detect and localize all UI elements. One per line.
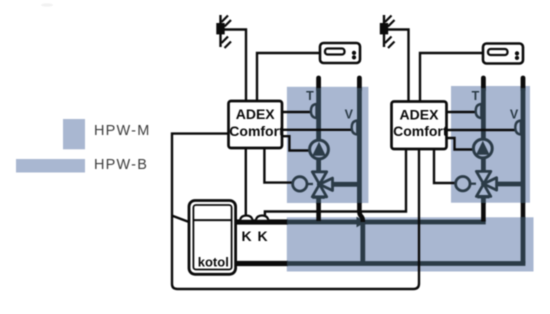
svg-text:V: V [345, 108, 354, 122]
svg-text:ADEX: ADEX [236, 106, 276, 122]
svg-text:HPW-B: HPW-B [94, 157, 148, 173]
svg-text:V: V [510, 108, 519, 122]
svg-text:ADEX: ADEX [400, 106, 440, 122]
svg-text:T: T [472, 89, 480, 103]
svg-text:T: T [306, 89, 314, 103]
svg-text:kotol: kotol [198, 255, 229, 270]
svg-text:Comfort: Comfort [393, 123, 448, 139]
svg-text:HPW-M: HPW-M [94, 123, 150, 139]
svg-text:K: K [241, 228, 251, 244]
svg-text:Comfort: Comfort [229, 123, 284, 139]
svg-text:K: K [257, 228, 267, 244]
